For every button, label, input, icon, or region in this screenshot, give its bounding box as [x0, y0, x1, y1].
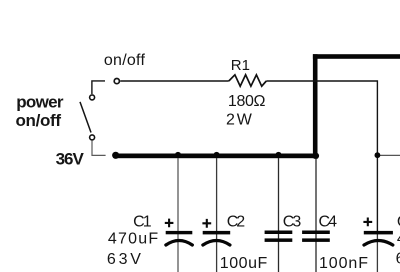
svg-text:C2: C2 — [227, 213, 246, 230]
svg-text:100uF: 100uF — [220, 255, 268, 272]
svg-text:36V: 36V — [56, 149, 85, 168]
svg-text:2W: 2W — [226, 112, 253, 129]
svg-text:180Ω: 180Ω — [228, 93, 266, 110]
svg-text:power: power — [16, 93, 64, 112]
svg-text:470uF: 470uF — [108, 230, 159, 247]
svg-text:C4: C4 — [319, 213, 338, 230]
svg-text:on/off: on/off — [16, 111, 62, 130]
svg-text:C3: C3 — [283, 213, 302, 230]
svg-text:R1: R1 — [231, 57, 250, 74]
svg-text:on/off: on/off — [104, 52, 146, 69]
svg-text:100nF: 100nF — [319, 255, 368, 272]
svg-text:63V: 63V — [396, 250, 400, 267]
svg-text:63V: 63V — [107, 251, 141, 268]
svg-text:C1: C1 — [133, 213, 152, 230]
